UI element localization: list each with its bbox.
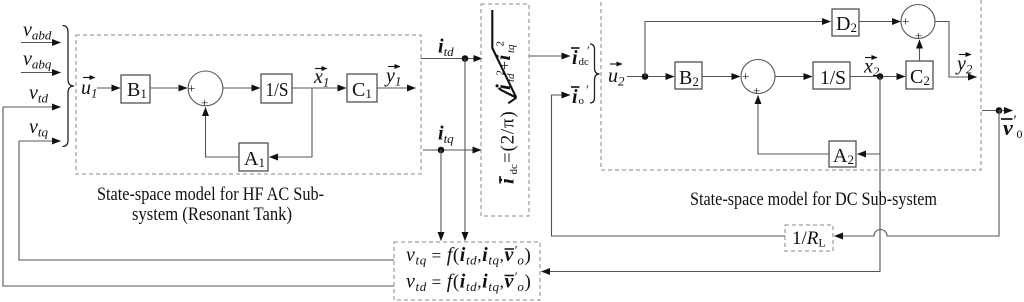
- svg-text:u2: u2: [608, 65, 625, 89]
- svg-text:B1: B1: [127, 79, 147, 101]
- wire top summer output y2: [935, 22, 977, 78]
- wire input v_abd arrow: [21, 42, 61, 44]
- svg-text:′: ′: [587, 43, 590, 58]
- svg-text:vtq: vtq: [29, 116, 49, 140]
- svg-text:1/S: 1/S: [266, 79, 289, 101]
- svg-text:vtd = f(itd,itq,v′o): vtd = f(itd,itq,v′o): [406, 269, 531, 294]
- node v'o: [996, 107, 1003, 114]
- svg-text:(2/π): (2/π): [498, 110, 519, 151]
- wire i_tq down to equation box: [440, 150, 442, 241]
- svg-text:i: i: [572, 47, 578, 69]
- wire x2 feedback vertical: [879, 77, 881, 273]
- wire into A1: [270, 156, 313, 158]
- wire input v_abq arrow: [21, 72, 61, 74]
- wire x2 state to equation box: [542, 271, 881, 273]
- svg-text:u1: u1: [81, 77, 98, 101]
- svg-text:A1: A1: [244, 148, 265, 170]
- wire state feedback vertical AC: [311, 88, 313, 157]
- svg-text:i: i: [491, 55, 515, 61]
- wire C2 up to top summer: [919, 40, 921, 61]
- wire feedback v_tq left vertical and bottom run: [19, 141, 394, 260]
- svg-text:y2: y2: [955, 53, 973, 77]
- dashed box coupling equations: [394, 242, 540, 300]
- wire v'o stub arrow: [999, 110, 1013, 112]
- svg-text:y1: y1: [384, 65, 401, 89]
- svg-text:+: +: [753, 83, 760, 98]
- wire A2 to summer bottom: [758, 96, 829, 155]
- svg-text:tq: tq: [505, 44, 517, 53]
- svg-text:1/S: 1/S: [820, 67, 846, 89]
- svg-text:B2: B2: [679, 67, 699, 89]
- svg-text:A2: A2: [833, 145, 854, 167]
- block 1/S DC: [813, 62, 850, 89]
- svg-text:vtd: vtd: [29, 82, 49, 106]
- svg-text:+: +: [902, 14, 909, 29]
- wire A1 to summer bottom: [206, 108, 240, 158]
- svg-text:=: =: [498, 152, 519, 163]
- wire D2 to top summer: [859, 21, 901, 23]
- node u2 split: [642, 73, 649, 80]
- wire sqrt out to i_dc': [529, 55, 570, 57]
- svg-text:+: +: [188, 81, 195, 96]
- svg-text:vtq = f(itd,itq,v′o): vtq = f(itd,itq,v′o): [406, 243, 531, 268]
- wire B2 to summer DC: [702, 76, 740, 78]
- svg-text:system (Resonant Tank): system (Resonant Tank): [132, 204, 292, 225]
- wire 1/S to C1: [292, 87, 346, 89]
- svg-text:dc: dc: [508, 164, 520, 175]
- wire C1 output: [377, 87, 416, 89]
- wire 1/S to C2: [850, 76, 905, 78]
- wire input v_tq arrow: [19, 140, 61, 142]
- block D2: [832, 9, 859, 36]
- block B1: [121, 75, 150, 103]
- svg-text:C2: C2: [910, 66, 930, 88]
- wire i_tq into sqrt block: [423, 149, 481, 151]
- svg-text:itq: itq: [438, 123, 454, 147]
- svg-text:C1: C1: [352, 79, 372, 101]
- wire u2 up to D2: [645, 22, 831, 77]
- node i_tq: [438, 147, 445, 154]
- wire into A2: [858, 153, 881, 155]
- block 1/RL: [785, 225, 833, 251]
- svg-text:i: i: [495, 178, 519, 184]
- summing junction DC: [741, 60, 775, 94]
- svg-text:+: +: [201, 95, 208, 110]
- wire i_td into sqrt block: [421, 58, 482, 60]
- svg-text:2: 2: [495, 41, 507, 47]
- node i_td: [462, 55, 469, 62]
- svg-text:+: +: [742, 69, 749, 84]
- block B2: [675, 62, 702, 89]
- wire v'o down to 1/RL with hop: [835, 111, 1000, 237]
- overbar v'o row1: [505, 248, 515, 250]
- svg-text:0: 0: [1017, 127, 1023, 141]
- wire i_o' from 1/RL: [552, 95, 786, 236]
- wire feedback v_td left vertical and bottom run: [3, 107, 394, 286]
- brace DC inputs: [590, 44, 600, 103]
- svg-text:o: o: [579, 95, 585, 107]
- svg-text:′: ′: [586, 82, 589, 97]
- equation i_dc = 2/pi sqrt(itd2+itq2) rotated: [491, 10, 520, 184]
- svg-text:+: +: [915, 28, 922, 43]
- svg-text:i: i: [572, 86, 578, 108]
- wire summer to 1/S AC: [223, 87, 260, 89]
- block A2: [829, 141, 856, 167]
- svg-text:itd: itd: [438, 36, 454, 60]
- wire input v_td arrow: [3, 106, 61, 108]
- svg-text:vabd: vabd: [23, 19, 52, 43]
- dashed box HF AC sub-system: [76, 35, 421, 174]
- wire u2 to B2: [627, 76, 674, 78]
- block C1: [347, 74, 377, 102]
- wire summer to 1/S DC: [775, 76, 812, 78]
- svg-text:State-space model for DC Sub-s: State-space model for DC Sub-system: [690, 189, 937, 210]
- wire i_td down to equation box: [464, 59, 466, 241]
- wire u1 to B1: [97, 87, 120, 89]
- brace left inputs: [63, 26, 75, 147]
- summing junction AC: [188, 71, 223, 106]
- dashed box rectifier equation: [481, 4, 529, 216]
- block 1/S AC: [261, 74, 292, 103]
- node x2: [877, 73, 884, 80]
- svg-text:D2: D2: [836, 13, 857, 35]
- svg-text:x1: x1: [313, 66, 329, 90]
- block C2: [906, 61, 933, 89]
- dashed box DC sub-system: [601, 0, 981, 170]
- summing junction output DC: [901, 5, 935, 39]
- svg-text:State-space model for HF AC Su: State-space model for HF AC Sub-: [97, 184, 324, 205]
- overbar v'o row2: [505, 275, 515, 277]
- svg-text:vabq: vabq: [23, 48, 52, 72]
- svg-text:1/RL: 1/RL: [792, 228, 826, 250]
- wire v'o output tap: [982, 110, 999, 112]
- block A1: [239, 143, 268, 171]
- wire B1 to summer: [150, 87, 187, 89]
